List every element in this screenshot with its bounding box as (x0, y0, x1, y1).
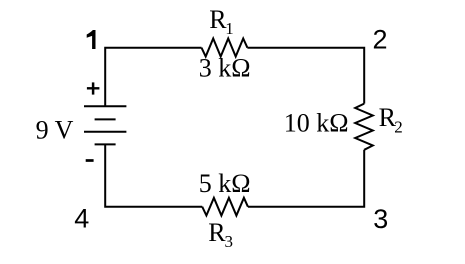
resistor R3 (202, 198, 248, 216)
svg-text:1: 1 (225, 19, 234, 38)
svg-text:2: 2 (394, 118, 403, 137)
svg-text:4: 4 (74, 204, 89, 234)
resistor R1 (202, 39, 248, 57)
battery B1 plate short (95, 118, 116, 120)
battery B1 plate short bottom (-) (95, 143, 116, 145)
wire: node1 left-top corner, left rail up + top rail to R1 (105, 48, 201, 107)
svg-text:3: 3 (373, 204, 388, 234)
plus sign of battery (87, 82, 100, 94)
svg-text:2: 2 (373, 25, 388, 55)
wire: bottom rail from R3 to node4 corner, up to battery minus plate (105, 144, 202, 206)
svg-text:5 kΩ: 5 kΩ (199, 169, 251, 198)
battery B1 plate long top (+) (84, 105, 126, 107)
wire: top rail from R1 to node2 corner, down to R2 (247, 48, 364, 104)
svg-text:3: 3 (225, 232, 234, 251)
svg-text:3 kΩ: 3 kΩ (199, 54, 251, 83)
svg-text:9 V: 9 V (36, 116, 74, 145)
wire: right rail from R2 down to node3 corner, bottom rail to R3 (248, 150, 364, 207)
svg-text:10 kΩ: 10 kΩ (284, 108, 349, 137)
minus sign of battery (86, 159, 94, 162)
node 1 label (87, 30, 96, 49)
battery B1 plate long (84, 131, 126, 133)
resistor R2 (355, 104, 373, 150)
